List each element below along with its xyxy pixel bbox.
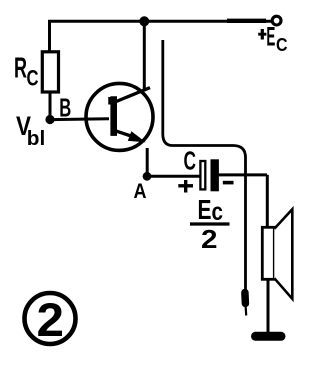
svg-text:B: B (59, 92, 71, 122)
svg-text:bl: bl (27, 128, 46, 150)
svg-text:R: R (14, 53, 27, 85)
svg-text:E: E (266, 21, 275, 51)
svg-text:c: c (212, 198, 224, 226)
svg-text:C: C (276, 35, 288, 55)
svg-text:2: 2 (201, 224, 218, 254)
svg-text:E: E (198, 194, 212, 225)
svg-text:A: A (134, 180, 147, 203)
svg-text:2: 2 (37, 293, 65, 346)
svg-text:C: C (27, 65, 39, 90)
svg-text:C: C (184, 146, 197, 176)
